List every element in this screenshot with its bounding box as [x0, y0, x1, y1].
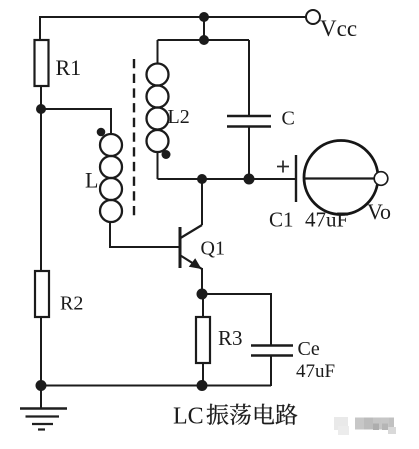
svg-text:47uF: 47uF	[296, 361, 335, 382]
output terminal small circle	[374, 172, 388, 186]
wire Vcc link rail-to-rail	[203, 17, 205, 40]
wire R3 top lead	[202, 294, 204, 317]
svg-text:R3: R3	[218, 326, 243, 350]
wire L2 bottom lead	[157, 152, 159, 179]
wire tank top rail	[158, 39, 250, 41]
wire left rail node A to R2	[40, 109, 42, 271]
wire L bottom to Q1 base	[110, 222, 179, 247]
wire L2 top lead	[157, 40, 159, 64]
wire output line through meter	[304, 177, 374, 179]
node emitter junction	[197, 289, 208, 300]
emitter arrow of Q1	[189, 258, 202, 269]
node ground junction	[36, 380, 47, 391]
svg-text:R2: R2	[60, 293, 83, 315]
polarity dot of L	[97, 128, 106, 137]
resistor R2	[35, 271, 49, 317]
wire top Vcc rail	[40, 16, 306, 18]
transformer core dashed line	[133, 59, 135, 216]
node collector tap	[197, 174, 207, 184]
svg-text:L: L	[85, 168, 98, 193]
resistor R3	[196, 317, 210, 363]
svg-text:Vo: Vo	[367, 199, 391, 224]
wire R1 bottom lead	[40, 86, 42, 109]
wire emitter node to Ce top	[202, 294, 271, 346]
wire Q1 collector lead	[201, 179, 203, 225]
resistor R1	[35, 40, 49, 86]
plus sign of C1	[277, 161, 289, 173]
terminal Vcc circle	[306, 10, 320, 24]
wire ground stub	[40, 385, 42, 408]
svg-text:Ce: Ce	[298, 338, 320, 360]
svg-text:Q1: Q1	[201, 238, 225, 260]
svg-text:C: C	[282, 108, 295, 130]
wire R3 bottom lead	[202, 363, 204, 386]
svg-text:Vcc: Vcc	[320, 16, 357, 41]
wire R1 top lead	[39, 16, 41, 40]
capacitor C1 plate	[295, 155, 297, 202]
node top rail junction	[199, 12, 209, 22]
wire C bottom lead	[248, 126, 250, 179]
svg-text:C1: C1	[269, 208, 294, 232]
wire Q1 emitter lead	[201, 268, 203, 294]
node R3 bottom junction	[197, 380, 208, 391]
polarity dot of L2	[162, 150, 171, 159]
node C bottom junction	[244, 174, 255, 185]
wire C top lead	[248, 40, 250, 116]
wire R2 to ground node	[40, 317, 42, 385]
transistor Q1	[180, 225, 202, 269]
wire node A to L top	[41, 109, 111, 134]
svg-text:R1: R1	[56, 55, 82, 80]
node tank top junction	[199, 35, 209, 45]
svg-text:47uF: 47uF	[305, 208, 348, 232]
capacitor C plates	[227, 116, 271, 127]
wire tank bottom rail to C1	[158, 178, 296, 180]
inductor L primary winding	[100, 134, 122, 222]
output meter circle	[304, 141, 378, 215]
ground	[20, 409, 67, 430]
node A R1/R2/L junction	[36, 104, 46, 114]
wire Ce bottom lead	[270, 355, 272, 386]
svg-text:LC: LC	[173, 404, 204, 430]
inductor L2 secondary winding	[147, 64, 169, 153]
caption Chinese characters zhen dang dian lu	[207, 404, 298, 425]
svg-text:L2: L2	[168, 106, 190, 128]
wire bottom ground rail	[41, 385, 271, 387]
watermark blob	[334, 417, 396, 435]
capacitor Ce plates	[251, 346, 293, 356]
